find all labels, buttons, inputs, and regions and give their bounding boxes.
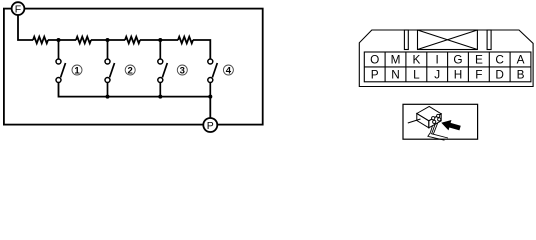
svg-text:P: P [371,68,379,82]
svg-text:2: 2 [128,65,133,76]
svg-text:F: F [15,3,21,15]
svg-text:A: A [517,53,525,67]
svg-text:H: H [454,68,463,82]
svg-text:4: 4 [226,65,232,76]
svg-text:1: 1 [74,65,80,76]
svg-text:C: C [495,53,504,67]
svg-text:G: G [453,53,462,67]
svg-text:O: O [370,53,379,67]
svg-text:M: M [391,53,401,67]
svg-text:K: K [412,53,420,67]
svg-text:B: B [517,68,525,82]
svg-text:F: F [475,68,482,82]
svg-text:D: D [495,68,504,82]
svg-text:3: 3 [180,65,185,76]
svg-text:P: P [207,120,214,132]
svg-text:I: I [436,53,439,67]
svg-text:N: N [391,68,400,82]
svg-text:L: L [413,68,420,82]
svg-text:E: E [475,53,483,67]
svg-text:J: J [434,68,440,82]
